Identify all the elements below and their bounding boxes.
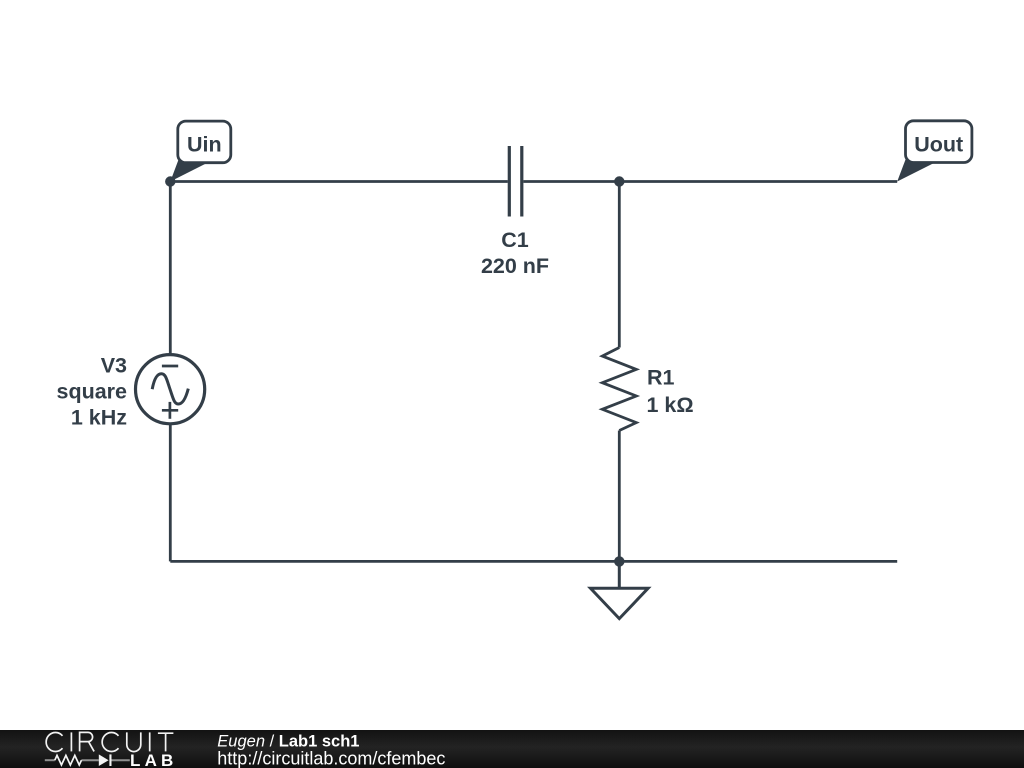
svg-text:square: square: [56, 380, 127, 404]
svg-text:Uin: Uin: [187, 133, 222, 157]
svg-text:1 kΩ: 1 kΩ: [647, 393, 694, 417]
node flag Uin box: [178, 121, 231, 163]
node junction dot at C1/R1: [614, 176, 624, 186]
resistor R1: [602, 348, 636, 431]
capacitor C1 value label: [481, 228, 549, 278]
svg-text:R1: R1: [647, 366, 675, 390]
CircuitLab logo CIRCUIT wordmark: [46, 732, 173, 751]
voltage source V3 value label: [56, 353, 127, 429]
resistor R1 value label: [647, 366, 694, 417]
node junction dot at ground: [614, 556, 624, 566]
wire R1 top lead: [618, 182, 621, 348]
wire top segment right of C1: [523, 180, 897, 183]
wire top segment left of C1: [170, 180, 508, 183]
ground: [591, 561, 649, 618]
wire left segment bottom (V3 to bottom rail): [169, 424, 172, 562]
capacitor C1: [509, 146, 522, 217]
svg-text:C1: C1: [501, 228, 529, 252]
svg-text:V3: V3: [101, 353, 127, 377]
node flag Uout box: [906, 121, 972, 163]
footer bar: [0, 730, 1024, 768]
wire bottom segment: [170, 560, 897, 563]
node flag Uout tail: [897, 153, 933, 182]
svg-text:220 nF: 220 nF: [481, 254, 549, 278]
CircuitLab logo wire: [45, 759, 130, 761]
CircuitLab logo resistor zigzag: [55, 755, 82, 765]
svg-text:Uout: Uout: [914, 133, 963, 157]
wire left segment top (Uin to V3): [169, 182, 172, 355]
node flag Uin tail: [170, 153, 206, 182]
wire R1 bottom lead: [618, 431, 621, 562]
svg-text:LAB: LAB: [130, 751, 178, 768]
svg-text:http://circuitlab.com/cfembec: http://circuitlab.com/cfembec: [217, 749, 445, 768]
node junction dot at Uin: [165, 176, 175, 186]
voltage source V3: [136, 355, 205, 424]
svg-text:1 kHz: 1 kHz: [71, 406, 127, 430]
CircuitLab logo diode: [99, 754, 112, 766]
